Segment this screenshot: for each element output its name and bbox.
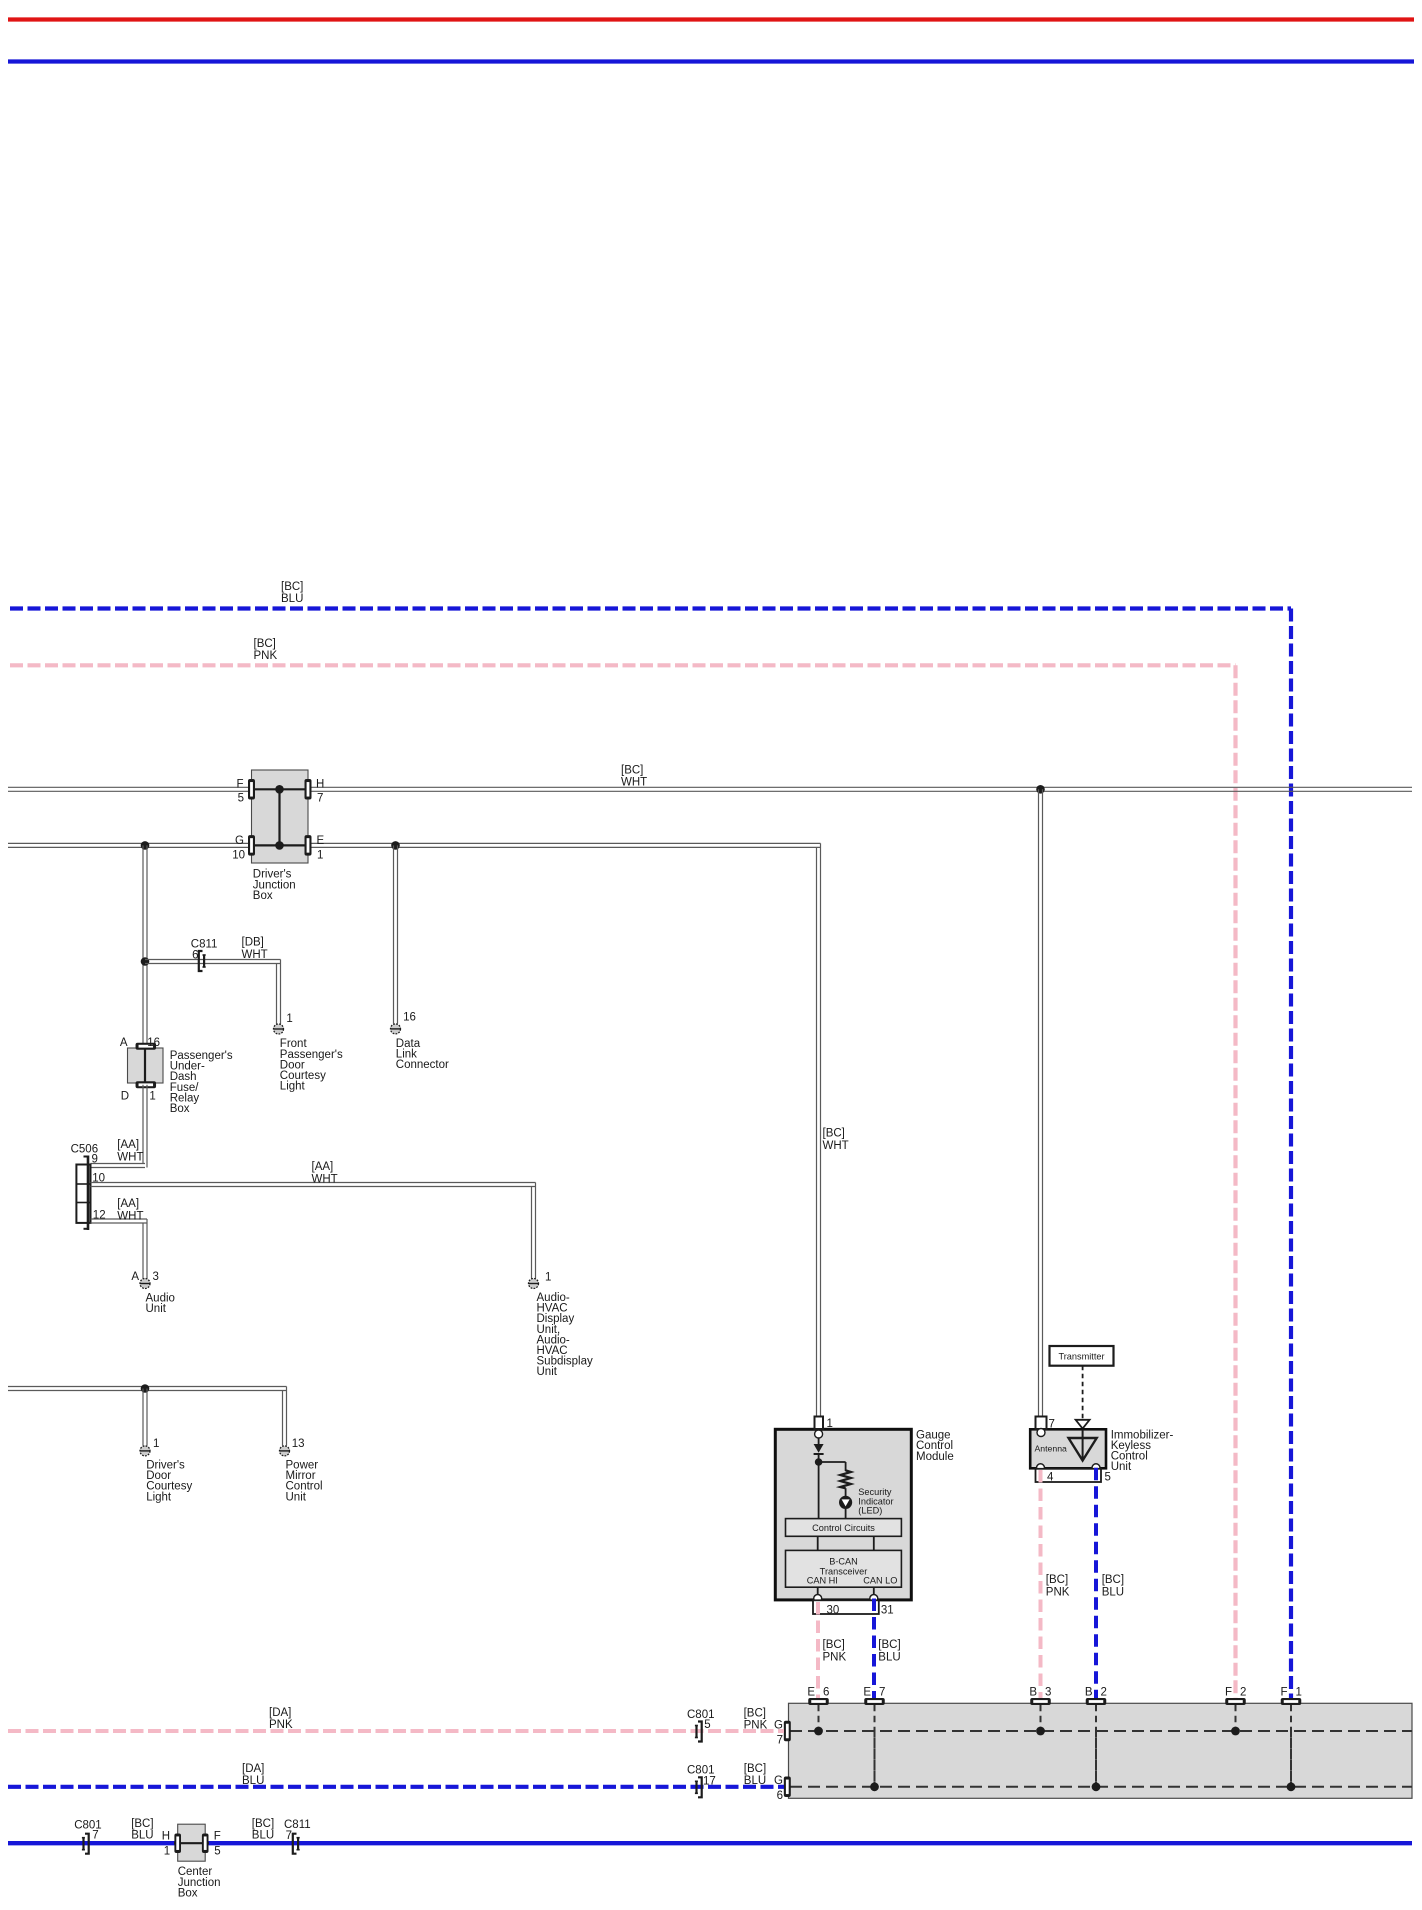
pin F/5 (CJB right)	[202, 1833, 209, 1853]
wire WHT lower horizontal	[8, 843, 821, 847]
terminal Power Mirror Control Unit	[280, 1446, 290, 1456]
svg-text:Unit: Unit	[286, 1491, 307, 1503]
node junction x=145 y=961.5	[141, 957, 150, 966]
svg-text:7: 7	[1049, 1419, 1055, 1431]
label 5 (immobilizer)	[1105, 1472, 1111, 1484]
svg-text:BLU: BLU	[1102, 1587, 1124, 1599]
svg-text:10: 10	[232, 849, 245, 861]
svg-text:PNK: PNK	[254, 650, 278, 662]
label Driver's Junction Box	[253, 869, 296, 902]
svg-text:5: 5	[1105, 1472, 1111, 1484]
label Data Link Connector	[396, 1038, 449, 1071]
wire CAN LO to pin 31	[873, 1587, 875, 1596]
svg-text:[BC]: [BC]	[823, 1128, 845, 1140]
wire LED to control circuits	[845, 1509, 847, 1519]
svg-text:16: 16	[147, 1037, 160, 1049]
wire inside center junction box	[174, 1842, 209, 1844]
svg-text:(LED): (LED)	[858, 1506, 882, 1516]
svg-text:[BC]: [BC]	[254, 638, 276, 650]
label [AA] WHT (pin 12)	[117, 1198, 143, 1222]
svg-text:WHT: WHT	[621, 777, 647, 789]
wire [BC] PNK immobilizer pin4 to B3	[1039, 1470, 1043, 1701]
svg-text:13: 13	[292, 1438, 305, 1450]
label pin number 1 (F1)	[1296, 1686, 1302, 1698]
label 1 (courtesy light)	[286, 1013, 292, 1025]
node junction W2 x=145	[141, 841, 150, 850]
svg-text:2: 2	[1101, 1686, 1107, 1698]
module Immobilizer-Keyless Control Unit body	[1030, 1429, 1106, 1468]
wire CAN HI to pin 30	[817, 1587, 819, 1596]
wire solid BLU bottom right segment	[207, 1841, 1412, 1845]
pin B 2 (bus top)	[1086, 1698, 1107, 1705]
wire [BC] BLU horizontal bus	[10, 606, 1291, 610]
label pin 6 (bus)	[777, 1790, 783, 1802]
label pin G (G7)	[774, 1719, 783, 1731]
terminal circle immobilizer pin7	[1037, 1429, 1045, 1437]
label 5 (C801)	[704, 1719, 710, 1731]
label 16 (data link)	[403, 1012, 416, 1024]
svg-text:BLU: BLU	[131, 1830, 153, 1842]
svg-text:Transmitter: Transmitter	[1058, 1351, 1104, 1361]
wire down to driver's door courtesy light	[143, 1389, 147, 1446]
wire inside DJB G-E	[252, 844, 309, 846]
label [BC] BLU (top bus)	[281, 581, 303, 605]
label 4	[1047, 1472, 1054, 1484]
svg-text:BLU: BLU	[878, 1652, 900, 1664]
svg-text:30: 30	[827, 1605, 840, 1617]
wire corner pin10 down to audio-hvac	[532, 1183, 536, 1279]
label 7 (C811 bottom)	[286, 1830, 292, 1842]
terminal pin 31 circle	[870, 1595, 878, 1603]
label 17 (C801)	[703, 1776, 716, 1788]
connector C506 body	[76, 1156, 90, 1231]
wire [BC] PNK gauge pin30 to E6	[816, 1602, 820, 1701]
label [BC] PNK (bus row)	[744, 1707, 768, 1731]
svg-text:[BC]: [BC]	[744, 1763, 766, 1775]
svg-text:6: 6	[823, 1686, 829, 1698]
svg-text:[AA]: [AA]	[117, 1198, 139, 1210]
svg-text:7: 7	[879, 1686, 885, 1698]
label pin 5	[238, 792, 244, 804]
label 1 (driver's light)	[153, 1438, 159, 1450]
label Power Mirror Control Unit	[286, 1460, 323, 1504]
label pin 7 (bus)	[777, 1734, 783, 1746]
label [DA] BLU	[242, 1763, 264, 1787]
label pin 10 (C506)	[92, 1173, 105, 1185]
svg-text:3: 3	[153, 1271, 159, 1283]
svg-text:WHT: WHT	[312, 1173, 338, 1185]
label pin letter F (F2)	[1225, 1686, 1232, 1698]
svg-text:[BC]: [BC]	[878, 1639, 900, 1651]
wire branch down to Immobilizer pin 7	[1039, 789, 1043, 1416]
svg-text:Module: Module	[916, 1451, 954, 1463]
label [BC] BLU (bottom left)	[131, 1818, 153, 1841]
label [BC] BLU (bottom right)	[252, 1818, 274, 1841]
svg-text:A: A	[120, 1037, 128, 1049]
bus box body	[789, 1703, 1413, 1798]
wire [BC] BLU vertical drop to F1	[1289, 609, 1293, 1702]
svg-text:BLU: BLU	[242, 1775, 264, 1787]
svg-text:Control Circuits: Control Circuits	[812, 1523, 875, 1533]
label pin D	[121, 1091, 129, 1103]
label pin 7 (immobilizer)	[1049, 1419, 1055, 1431]
pin F/5 (DJB left top)	[248, 779, 255, 800]
svg-text:BLU: BLU	[252, 1830, 274, 1842]
label pin 1 (fuse box)	[149, 1091, 155, 1103]
pin E/1 (DJB right bottom)	[305, 835, 312, 856]
svg-text:B: B	[1029, 1686, 1037, 1698]
wire transmitter dashed signal	[1082, 1366, 1084, 1420]
svg-text:H: H	[316, 778, 324, 790]
svg-text:1: 1	[286, 1013, 292, 1025]
connector C801 pin 7 symbol (bottom)	[82, 1834, 89, 1854]
svg-text:17: 17	[703, 1776, 716, 1788]
pin G/6 (bus left bottom)	[784, 1777, 791, 1798]
junction box Center Junction Box body	[178, 1824, 206, 1861]
wire [DA] BLU row	[8, 1785, 784, 1789]
svg-text:PNK: PNK	[1046, 1587, 1070, 1599]
node DJB bottom junction	[275, 841, 284, 850]
svg-text:E: E	[807, 1686, 815, 1698]
bus column F1 dashed vertical	[1287, 1705, 1296, 1791]
svg-text:[BC]: [BC]	[281, 581, 303, 593]
ground rail (blue)	[8, 59, 1414, 63]
svg-text:PNK: PNK	[269, 1719, 293, 1731]
label [BC] PNK (immobilizer)	[1046, 1574, 1070, 1599]
wire [BC] BLU gauge pin31 to E7	[872, 1599, 876, 1702]
bus column F2 dashed vertical	[1231, 1705, 1240, 1736]
bus column B3 dashed vertical	[1036, 1705, 1045, 1736]
block B-CAN Transceiver	[786, 1550, 902, 1587]
svg-text:[AA]: [AA]	[117, 1139, 139, 1151]
terminal Audio-HVAC Display Unit	[529, 1279, 539, 1289]
svg-text:E: E	[863, 1686, 871, 1698]
wire inside DJB F-H	[252, 788, 309, 790]
svg-text:WHT: WHT	[242, 949, 268, 961]
svg-text:5: 5	[238, 792, 244, 804]
svg-text:CAN LO: CAN LO	[863, 1576, 897, 1586]
pin G/10 (DJB left bottom)	[248, 835, 255, 856]
pin F 1 (bus top)	[1281, 1698, 1302, 1705]
svg-text:Unit: Unit	[537, 1366, 558, 1378]
label pin G	[235, 835, 244, 847]
wire vertical x=145 from W2 to fuse box	[143, 845, 147, 1043]
svg-text:CAN HI: CAN HI	[807, 1576, 838, 1586]
connector C811 pin 7 symbol (bottom)	[293, 1834, 300, 1854]
svg-text:Light: Light	[280, 1081, 306, 1093]
label 6 (C811)	[192, 950, 198, 962]
label [AA] WHT (pin 9)	[117, 1139, 143, 1163]
svg-text:3: 3	[1045, 1686, 1051, 1698]
label pin 5 (CJB)	[214, 1846, 220, 1858]
svg-text:Box: Box	[170, 1103, 190, 1115]
connector C801 pin 5 symbol	[695, 1722, 702, 1742]
wire inside fuse box	[144, 1049, 146, 1082]
wire diode to junction	[818, 1454, 820, 1519]
fuse box Passenger's Under-Dash Fuse/Relay Box body	[128, 1048, 164, 1083]
svg-text:[BC]: [BC]	[1102, 1574, 1124, 1586]
wire corner pin12 down to audio unit	[143, 1219, 147, 1279]
label pin 7 (DJB)	[317, 792, 323, 804]
label pin number 7 (E7)	[879, 1686, 885, 1698]
svg-text:A: A	[131, 1271, 139, 1283]
svg-text:1: 1	[317, 849, 323, 861]
label pin 3 (audio)	[153, 1271, 159, 1283]
label pin 1 (DJB)	[317, 849, 323, 861]
wire vertical fuse box D to C506 row9	[143, 1085, 147, 1168]
pin A/16 (fuse box top)	[136, 1043, 157, 1050]
label [BC] WHT (vertical wire)	[823, 1128, 849, 1152]
terminal pin 30 circle	[814, 1595, 822, 1603]
svg-text:PNK: PNK	[823, 1652, 847, 1664]
svg-text:[BC]: [BC]	[744, 1707, 766, 1719]
label [BC] BLU (immobilizer)	[1102, 1574, 1124, 1599]
resistor (gauge, security LED series)	[840, 1470, 850, 1488]
node junction on W1 at x=1040	[1036, 785, 1045, 794]
label pin F (CJB)	[214, 1831, 221, 1843]
svg-text:1: 1	[149, 1091, 155, 1103]
pin E 7 (bus top)	[864, 1698, 885, 1705]
label [AA] WHT (pin 10)	[312, 1161, 338, 1185]
svg-text:4: 4	[1047, 1472, 1054, 1484]
label pin 1 (CJB)	[164, 1846, 170, 1858]
label Audio Unit	[146, 1293, 175, 1316]
wire [BC] WHT upper horizontal	[8, 787, 1412, 791]
label Security Indicator (LED)	[858, 1487, 893, 1516]
svg-text:D: D	[121, 1091, 129, 1103]
svg-text:[DB]: [DB]	[242, 937, 264, 949]
label pin number 6 (E6)	[823, 1686, 829, 1698]
label Antenna	[1035, 1444, 1068, 1454]
svg-text:7: 7	[777, 1734, 783, 1746]
terminal Driver's Door Courtesy Light	[140, 1446, 150, 1456]
power rail (red)	[8, 17, 1414, 21]
svg-text:[BC]: [BC]	[621, 765, 643, 777]
svg-text:Antenna: Antenna	[1035, 1444, 1068, 1454]
svg-text:B-CAN: B-CAN	[829, 1557, 858, 1567]
wire row pin 9 to C506	[91, 1164, 146, 1168]
node junction W2 x=395.5	[391, 841, 400, 850]
junction box Driver's Junction Box body	[252, 770, 309, 863]
label Passenger's Under-Dash Fuse/Relay Box	[170, 1050, 233, 1115]
label [BC] WHT (upper wire)	[621, 765, 647, 789]
label 30	[827, 1605, 840, 1617]
pin F 2 (bus top)	[1225, 1698, 1246, 1705]
node DJB top junction	[275, 785, 284, 794]
pin H/7 (DJB right top)	[305, 779, 312, 800]
label [BC] PNK (top bus)	[254, 638, 278, 662]
label pin letter B (B2)	[1085, 1686, 1093, 1698]
wire vertical x=395.5 to data link connector	[394, 845, 398, 1023]
svg-text:Light: Light	[146, 1491, 172, 1503]
label Front Passenger's Door Courtesy Light	[280, 1038, 343, 1092]
label [BC] PNK (gauge)	[823, 1639, 847, 1664]
label C801 (bottom)	[74, 1820, 102, 1832]
bus dashed row G6	[790, 1786, 1412, 1788]
label pin 9 (C506)	[92, 1154, 98, 1166]
label pin A (audio)	[131, 1271, 139, 1283]
label pin 1 (gauge)	[827, 1418, 833, 1430]
module Gauge Control Module body	[775, 1429, 911, 1600]
label pin A	[120, 1037, 128, 1049]
svg-text:[BC]: [BC]	[131, 1818, 153, 1830]
svg-text:WHT: WHT	[117, 1151, 143, 1163]
label 1 (audio-hvac)	[545, 1272, 551, 1284]
svg-text:6: 6	[192, 950, 198, 962]
label pin F	[236, 778, 243, 790]
svg-text:F: F	[1280, 1686, 1287, 1698]
svg-text:1: 1	[164, 1846, 170, 1858]
wire [DA] PNK row	[8, 1729, 784, 1733]
svg-text:F: F	[236, 778, 243, 790]
pin D/1 (fuse box bottom)	[136, 1081, 157, 1088]
label Immobilizer-Keyless Control Unit	[1111, 1429, 1174, 1473]
node gauge internal junction	[815, 1458, 823, 1466]
svg-text:WHT: WHT	[823, 1140, 849, 1152]
wire control circuits to b-can left	[817, 1536, 819, 1550]
bus column E6 dashed vertical	[814, 1705, 823, 1736]
svg-text:PNK: PNK	[744, 1719, 768, 1731]
block Control Circuits	[786, 1519, 902, 1537]
svg-text:F: F	[214, 1831, 221, 1843]
block Transmitter	[1050, 1346, 1114, 1366]
svg-text:7: 7	[286, 1830, 292, 1842]
wire corner down to power mirror	[283, 1387, 287, 1446]
svg-text:1: 1	[1296, 1686, 1302, 1698]
terminal circle immobilizer pin4	[1037, 1464, 1045, 1472]
label [BC] BLU (bus row)	[744, 1763, 766, 1787]
terminal Data Link Connector	[391, 1024, 401, 1034]
wire W2 corner down to Gauge pin 1	[817, 843, 821, 1416]
label pin G (G6)	[774, 1775, 783, 1787]
label [DA] PNK	[269, 1707, 293, 1731]
wire solid BLU bottom left segment	[8, 1841, 176, 1845]
svg-text:H: H	[162, 1831, 170, 1843]
node junction W3 x=145	[141, 1384, 150, 1393]
pin 7 (immobilizer top)	[1036, 1417, 1047, 1430]
svg-text:7: 7	[92, 1830, 98, 1842]
svg-text:Unit: Unit	[146, 1303, 167, 1315]
label C506	[71, 1143, 99, 1155]
wire gauge pin1 to diode	[818, 1438, 820, 1444]
svg-text:Connector: Connector	[396, 1059, 449, 1071]
terminal circle inside gauge pin1	[815, 1430, 823, 1438]
label pin letter F (F1)	[1280, 1686, 1287, 1698]
label pin 16 (fuse box)	[147, 1037, 160, 1049]
pin B 3 (bus top)	[1030, 1698, 1051, 1705]
svg-text:[BC]: [BC]	[252, 1818, 274, 1830]
label pin letter E (E7)	[863, 1686, 871, 1698]
svg-text:WHT: WHT	[117, 1210, 143, 1222]
label Center Junction Box	[178, 1866, 221, 1899]
label [DB] WHT	[242, 937, 268, 961]
connector C811 pin 6 symbol	[199, 951, 206, 971]
label Audio-HVAC Display/Subdisplay Unit	[537, 1292, 594, 1378]
svg-text:[BC]: [BC]	[823, 1639, 845, 1651]
svg-text:E: E	[317, 835, 325, 847]
svg-text:16: 16	[403, 1012, 416, 1024]
label C811 (top)	[191, 939, 218, 951]
bus column E7 dashed vertical	[870, 1705, 879, 1791]
svg-text:6: 6	[777, 1790, 783, 1802]
bus column B2 dashed vertical	[1092, 1705, 1101, 1791]
svg-text:1: 1	[153, 1438, 159, 1450]
label 13 (power mirror)	[292, 1438, 305, 1450]
pin G/7 (bus left top)	[784, 1721, 791, 1742]
svg-text:1: 1	[545, 1272, 551, 1284]
wire inside DJB vertical	[278, 789, 280, 845]
arrow transmitter signal	[1076, 1420, 1090, 1429]
svg-text:B: B	[1085, 1686, 1093, 1698]
svg-text:Box: Box	[178, 1887, 198, 1899]
wire WHT lower-left horizontal	[8, 1387, 287, 1391]
label pin letter B (B3)	[1029, 1686, 1037, 1698]
wire [BC] BLU immobilizer pin5 to B2	[1094, 1468, 1098, 1701]
wire corner down to courtesy light	[277, 960, 281, 1025]
svg-text:7: 7	[317, 792, 323, 804]
wire [BC] PNK horizontal bus	[10, 663, 1236, 667]
svg-text:12: 12	[93, 1210, 106, 1222]
svg-text:[DA]: [DA]	[269, 1707, 291, 1719]
pin E 6 (bus top)	[808, 1698, 829, 1705]
svg-text:G: G	[235, 835, 244, 847]
svg-text:BLU: BLU	[744, 1775, 766, 1787]
label Gauge Control Module	[916, 1430, 954, 1463]
connector bar 30/31	[813, 1600, 879, 1614]
connector C801 pin 17 symbol	[695, 1777, 702, 1797]
wire junction to resistor branch	[819, 1462, 846, 1471]
label C801 (pnk row)	[687, 1709, 715, 1721]
svg-text:Unit: Unit	[1111, 1461, 1132, 1473]
wire resistor to LED	[845, 1488, 847, 1496]
wire row pin 10 long	[91, 1183, 536, 1187]
wire control circuits to b-can right	[873, 1536, 875, 1550]
label C811 (bottom)	[284, 1819, 311, 1831]
svg-text:2: 2	[1240, 1686, 1246, 1698]
svg-text:[BC]: [BC]	[1046, 1574, 1068, 1586]
pin 1 (gauge top)	[815, 1417, 824, 1430]
label pin number 2 (F2)	[1240, 1686, 1246, 1698]
svg-text:[AA]: [AA]	[312, 1161, 334, 1173]
label [BC] BLU (gauge)	[878, 1639, 900, 1664]
label pin H (CJB)	[162, 1831, 170, 1843]
svg-text:[DA]: [DA]	[242, 1763, 264, 1775]
terminal Audio Unit	[140, 1279, 150, 1289]
terminal Front Passenger's Door Courtesy Light	[274, 1024, 284, 1034]
svg-text:Box: Box	[253, 890, 273, 902]
wire branch to C811 and courtesy light	[145, 960, 281, 964]
label pin number 3 (B3)	[1045, 1686, 1051, 1698]
label 7 (C801 bottom)	[92, 1830, 98, 1842]
diode (gauge)	[814, 1444, 824, 1454]
bus dashed row G7	[790, 1730, 1412, 1732]
label pin H	[316, 778, 324, 790]
wire row pin 12	[91, 1219, 148, 1223]
connector bar 4/5	[1036, 1469, 1102, 1482]
LED Security Indicator	[839, 1496, 852, 1509]
label 31	[881, 1605, 894, 1617]
svg-text:BLU: BLU	[281, 593, 303, 605]
svg-text:F: F	[1225, 1686, 1232, 1698]
svg-text:31: 31	[881, 1605, 894, 1617]
svg-text:9: 9	[92, 1154, 98, 1166]
label pin E	[317, 835, 325, 847]
pin H/1 (CJB left)	[174, 1833, 181, 1853]
antenna symbol	[1069, 1429, 1097, 1460]
svg-text:1: 1	[827, 1418, 833, 1430]
label pin letter E (E6)	[807, 1686, 815, 1698]
label pin number 2 (B2)	[1101, 1686, 1107, 1698]
